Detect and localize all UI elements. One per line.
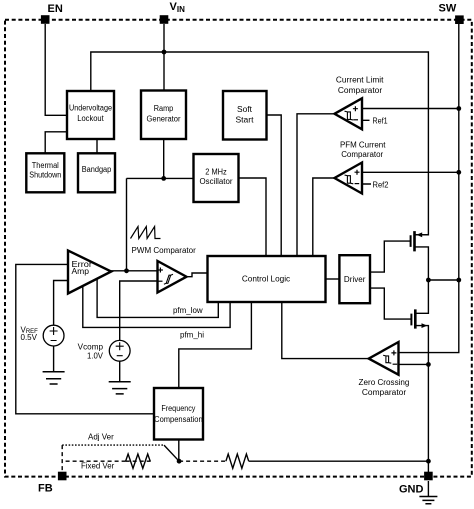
svg-text:Frequency: Frequency: [161, 404, 195, 413]
svg-text:Comparator: Comparator: [338, 86, 383, 95]
svg-text:SW: SW: [439, 3, 457, 15]
svg-text:0.5V: 0.5V: [20, 333, 37, 342]
svg-text:Amp: Amp: [71, 267, 89, 276]
svg-text:Current Limit: Current Limit: [336, 76, 384, 85]
svg-text:Control Logic: Control Logic: [242, 275, 290, 284]
svg-text:Shutdown: Shutdown: [29, 170, 61, 179]
svg-text:Undervoltage: Undervoltage: [69, 104, 112, 113]
svg-text:Comparator: Comparator: [362, 388, 407, 397]
svg-text:Zero Crossing: Zero Crossing: [359, 378, 410, 387]
svg-text:Bandgap: Bandgap: [82, 165, 112, 174]
svg-text:PFM Current: PFM Current: [340, 141, 386, 150]
svg-text:Start: Start: [236, 116, 255, 125]
svg-text:Soft: Soft: [237, 105, 253, 114]
svg-text:2 MHz: 2 MHz: [205, 167, 227, 176]
svg-text:Fixed Ver: Fixed Ver: [81, 462, 115, 471]
svg-text:Adj Ver: Adj Ver: [88, 433, 114, 442]
svg-text:1.0V: 1.0V: [87, 351, 104, 360]
svg-text:Ramp: Ramp: [154, 104, 174, 113]
svg-text:Oscillator: Oscillator: [200, 177, 233, 186]
svg-text:Generator: Generator: [147, 114, 181, 123]
svg-text:pfm_low: pfm_low: [173, 306, 203, 315]
svg-text:Vcomp: Vcomp: [78, 342, 104, 351]
svg-text:Comparator: Comparator: [341, 150, 383, 159]
svg-text:EN: EN: [48, 3, 63, 15]
svg-text:Driver: Driver: [344, 275, 366, 284]
svg-text:Thermal: Thermal: [32, 161, 59, 170]
svg-text:Ref1: Ref1: [373, 117, 389, 126]
svg-text:Compensation: Compensation: [154, 415, 203, 424]
svg-text:Lockout: Lockout: [77, 114, 104, 123]
svg-text:pfm_hi: pfm_hi: [180, 330, 204, 339]
svg-text:FB: FB: [38, 482, 53, 494]
svg-text:GND: GND: [399, 484, 424, 496]
svg-text:PWM Comparator: PWM Comparator: [132, 246, 197, 255]
svg-text:Ref2: Ref2: [373, 181, 390, 190]
